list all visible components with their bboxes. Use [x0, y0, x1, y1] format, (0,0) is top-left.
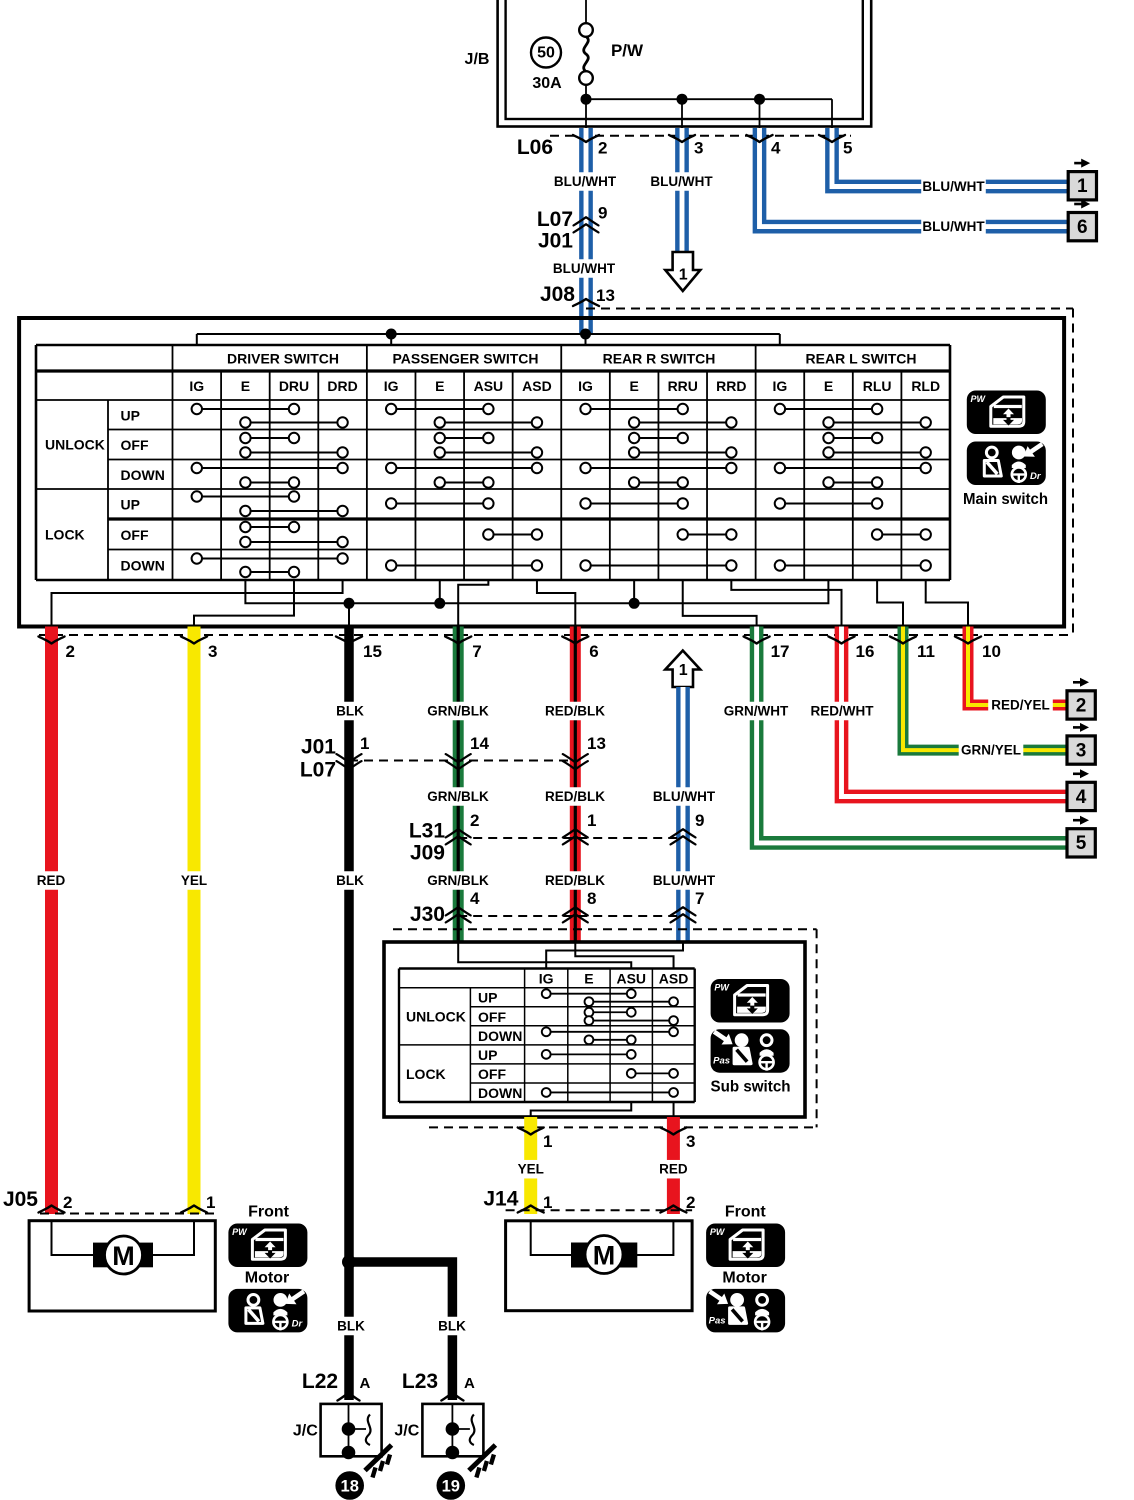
svg-text:1: 1: [543, 1132, 552, 1151]
in-line connector J01/L07 (pins 1 14 13): [300, 734, 606, 782]
svg-text:E: E: [629, 378, 638, 394]
sub switch connector (dashed outline): [393, 929, 817, 1127]
svg-text:6: 6: [589, 642, 598, 661]
svg-text:3: 3: [686, 1132, 695, 1151]
driver motor icon PW window: [228, 1224, 307, 1268]
svg-text:REAR R SWITCH: REAR R SWITCH: [603, 351, 716, 367]
svg-text:Dr: Dr: [1030, 471, 1042, 482]
svg-text:PW: PW: [232, 1227, 248, 1237]
label BLU/WHT: [652, 871, 717, 890]
svg-text:BLU/WHT: BLU/WHT: [653, 789, 716, 804]
label BLK: [334, 702, 365, 721]
terminal 2 (to page arrow): [1067, 678, 1095, 719]
label RED/WHT: [810, 702, 875, 721]
label BLU/WHT: [921, 217, 986, 236]
svg-text:J14: J14: [483, 1187, 518, 1210]
label BLU/WHT: [552, 259, 617, 278]
svg-text:ASD: ASD: [522, 378, 552, 394]
svg-text:DRU: DRU: [279, 378, 309, 394]
svg-text:BLU/WHT: BLU/WHT: [922, 219, 985, 234]
svg-text:YEL: YEL: [181, 873, 207, 888]
connector J08 pin 13: [540, 283, 615, 306]
label BLK: [335, 1317, 366, 1336]
svg-text:J/B: J/B: [465, 51, 490, 68]
label Sub switch: [711, 1079, 791, 1096]
driver motor icon driver seat: [228, 1289, 307, 1333]
fuse 50 30A P/W: [531, 0, 644, 92]
driver front motor: [29, 1221, 215, 1311]
label YEL: [178, 871, 209, 890]
svg-text:2: 2: [686, 1193, 695, 1212]
svg-text:4: 4: [470, 889, 480, 908]
svg-text:3: 3: [208, 642, 217, 661]
svg-text:J/C: J/C: [293, 1422, 318, 1439]
wire BLU/WHT L06-4 to terminal 6: [760, 128, 1069, 227]
wire BLU/WHT to sub switch: [676, 687, 690, 942]
J/B internal bus and pin stubs: [581, 85, 833, 128]
label Motor: [722, 1270, 766, 1287]
label GRN/BLK: [426, 871, 491, 890]
svg-text:Motor: Motor: [722, 1270, 766, 1287]
svg-text:1: 1: [679, 267, 688, 284]
svg-text:BLU/WHT: BLU/WHT: [653, 873, 716, 888]
main switch bottom pin numbers: [66, 642, 1001, 661]
svg-text:7: 7: [695, 889, 704, 908]
joint connector J/C (18): [293, 1404, 392, 1500]
svg-text:BLU/WHT: BLU/WHT: [554, 174, 617, 189]
svg-text:BLK: BLK: [336, 704, 364, 719]
svg-text:9: 9: [598, 204, 607, 223]
svg-text:RED: RED: [659, 1162, 688, 1177]
sub switch box: [384, 942, 805, 1117]
wire BLU/WHT L06-3: [675, 128, 689, 253]
svg-text:15: 15: [363, 642, 382, 661]
svg-text:DOWN: DOWN: [478, 1085, 522, 1101]
svg-text:2: 2: [66, 642, 75, 661]
label BLU/WHT: [553, 172, 618, 191]
svg-text:ASU: ASU: [616, 971, 646, 987]
svg-text:Motor: Motor: [245, 1270, 289, 1287]
label BLU/WHT: [921, 177, 986, 196]
svg-text:M: M: [112, 1241, 135, 1271]
svg-text:4: 4: [1076, 787, 1087, 808]
svg-text:L07: L07: [300, 759, 336, 782]
wire GRN/WHT to terminal 5: [757, 627, 1067, 843]
svg-text:Dr: Dr: [292, 1318, 304, 1329]
svg-text:DOWN: DOWN: [121, 557, 165, 573]
sub switch icon passenger seat: [711, 1029, 790, 1073]
svg-text:UP: UP: [121, 497, 140, 513]
label YEL: [515, 1160, 546, 1179]
svg-text:LOCK: LOCK: [45, 527, 85, 543]
label Main switch: [963, 491, 1048, 508]
svg-text:14: 14: [470, 734, 489, 753]
label RED/BLK: [543, 787, 608, 806]
svg-text:DOWN: DOWN: [121, 467, 165, 483]
wire BLK ground with branch: [342, 627, 452, 1401]
junction box J/B: [465, 0, 872, 127]
svg-text:OFF: OFF: [478, 1009, 506, 1025]
svg-text:RED/BLK: RED/BLK: [545, 704, 605, 719]
svg-text:PW: PW: [710, 1227, 726, 1237]
main switch table labels: [45, 351, 940, 574]
main switch icon driver seat: [967, 442, 1046, 486]
svg-text:1: 1: [679, 662, 688, 679]
svg-text:7: 7: [472, 642, 481, 661]
svg-text:RED/YEL: RED/YEL: [991, 698, 1050, 713]
svg-text:Front: Front: [248, 1204, 290, 1221]
svg-text:DRD: DRD: [327, 378, 357, 394]
svg-text:E: E: [584, 971, 593, 987]
svg-text:Pas: Pas: [713, 1056, 730, 1067]
svg-text:Sub switch: Sub switch: [711, 1079, 791, 1096]
svg-text:L07: L07: [537, 208, 573, 231]
svg-text:IG: IG: [773, 378, 788, 394]
svg-text:16: 16: [856, 642, 875, 661]
svg-text:RED/BLK: RED/BLK: [545, 873, 605, 888]
svg-text:RRD: RRD: [716, 378, 746, 394]
svg-text:BLU/WHT: BLU/WHT: [922, 179, 985, 194]
joint connector J/C (19): [394, 1404, 495, 1500]
sub switch bottom pins: [518, 1128, 696, 1152]
svg-text:L22: L22: [302, 1370, 338, 1393]
passenger front motor: [506, 1221, 692, 1311]
label BLU/WHT: [649, 172, 714, 191]
passenger motor icon seat: [706, 1289, 785, 1333]
svg-text:IG: IG: [578, 378, 593, 394]
svg-text:RED/WHT: RED/WHT: [811, 704, 875, 719]
svg-text:9: 9: [695, 811, 704, 830]
svg-text:Front: Front: [725, 1204, 767, 1221]
passenger motor icon PW window: [706, 1224, 785, 1268]
svg-text:A: A: [360, 1375, 371, 1392]
connector L22 pin A: [302, 1370, 371, 1400]
svg-text:OFF: OFF: [478, 1066, 506, 1082]
main switch icon PW window: [967, 391, 1046, 435]
in-line connector L31/J09 (pins 2 1 9): [409, 811, 705, 865]
rear R switch contacts: [580, 404, 736, 571]
svg-text:LOCK: LOCK: [406, 1066, 446, 1082]
svg-text:BLK: BLK: [438, 1319, 466, 1334]
svg-text:E: E: [824, 378, 833, 394]
svg-text:UNLOCK: UNLOCK: [406, 1009, 466, 1025]
connector J30 (pins 4 8 7): [410, 889, 705, 926]
passenger switch contacts: [386, 404, 542, 571]
svg-text:J/C: J/C: [394, 1422, 419, 1439]
svg-text:REAR L SWITCH: REAR L SWITCH: [806, 351, 917, 367]
wire RED/BLK to sub switch: [570, 627, 581, 943]
svg-text:RRU: RRU: [668, 378, 698, 394]
svg-text:17: 17: [771, 642, 790, 661]
svg-text:ASU: ASU: [474, 378, 504, 394]
svg-text:8: 8: [587, 889, 596, 908]
svg-text:Main switch: Main switch: [963, 491, 1048, 508]
connector J14 (pins 1 2): [483, 1187, 695, 1212]
label BLK: [334, 871, 365, 890]
svg-text:1: 1: [206, 1193, 215, 1212]
sub switch input wiring: [458, 942, 683, 969]
svg-text:PW: PW: [714, 983, 730, 993]
svg-text:2: 2: [63, 1193, 72, 1212]
svg-text:GRN/BLK: GRN/BLK: [427, 873, 489, 888]
svg-text:J01: J01: [301, 736, 336, 759]
svg-text:UP: UP: [478, 990, 497, 1006]
svg-text:GRN/BLK: GRN/BLK: [427, 704, 489, 719]
rear L switch contacts: [775, 404, 931, 571]
wire RED sub to J14-2: [667, 1117, 680, 1214]
svg-text:UP: UP: [121, 407, 140, 423]
wire RED/WHT to terminal 4: [842, 627, 1068, 797]
wire BLU/WHT L06-2 to J08-13: [579, 128, 593, 335]
svg-text:10: 10: [982, 642, 1001, 661]
main switch table grid: [36, 345, 950, 580]
label RED: [658, 1160, 689, 1179]
svg-text:RED: RED: [37, 873, 66, 888]
svg-text:2: 2: [470, 811, 479, 830]
in-line connector L07/J01 pin 9: [537, 204, 608, 253]
terminal 5 (to page arrow): [1067, 816, 1095, 857]
svg-text:GRN/WHT: GRN/WHT: [724, 704, 789, 719]
sub switch table grid: [399, 969, 695, 1103]
terminal 3 (to page arrow): [1067, 723, 1095, 764]
svg-text:PW: PW: [971, 394, 987, 404]
svg-text:BLK: BLK: [336, 873, 364, 888]
svg-text:Pas: Pas: [709, 1315, 726, 1326]
svg-text:A: A: [464, 1375, 475, 1392]
svg-text:IG: IG: [384, 378, 399, 394]
label GRN/YEL: [959, 741, 1024, 760]
svg-text:RLD: RLD: [911, 378, 940, 394]
svg-text:IG: IG: [539, 971, 554, 987]
wire GRN/YEL to terminal 3: [903, 627, 1067, 751]
sub switch contacts: [542, 989, 678, 1097]
label RED: [35, 871, 66, 890]
svg-text:L06: L06: [517, 136, 553, 159]
svg-text:UNLOCK: UNLOCK: [45, 437, 105, 453]
driver switch contacts: [192, 404, 348, 577]
label GRN/WHT: [724, 702, 789, 721]
wire GRN/BLK to sub switch: [453, 627, 464, 943]
wire YEL to J05-1: [188, 627, 201, 1215]
off-page connector arrow 1 (down): [665, 252, 700, 291]
svg-text:M: M: [593, 1241, 616, 1271]
svg-text:30A: 30A: [532, 75, 562, 92]
sub switch icon PW window: [711, 979, 790, 1023]
svg-text:PASSENGER SWITCH: PASSENGER SWITCH: [393, 351, 539, 367]
svg-text:ASD: ASD: [659, 971, 689, 987]
terminal 1 (to page arrow): [1068, 159, 1096, 200]
svg-text:13: 13: [587, 734, 606, 753]
label GRN/BLK: [426, 787, 491, 806]
svg-text:1: 1: [360, 734, 369, 753]
svg-text:2: 2: [1076, 695, 1087, 716]
sub switch table labels: [406, 971, 688, 1101]
svg-text:UP: UP: [478, 1047, 497, 1063]
svg-text:DOWN: DOWN: [478, 1028, 522, 1044]
svg-text:IG: IG: [189, 378, 204, 394]
main switch internal wiring to pins: [52, 580, 969, 627]
svg-text:YEL: YEL: [518, 1162, 544, 1177]
svg-text:5: 5: [1076, 833, 1087, 854]
connector L06 pin chevrons: [573, 135, 845, 142]
svg-text:J05: J05: [3, 1188, 38, 1211]
svg-text:DRIVER SWITCH: DRIVER SWITCH: [227, 351, 339, 367]
label BLU/WHT: [652, 787, 717, 806]
svg-text:11: 11: [917, 642, 935, 661]
svg-text:J01: J01: [538, 230, 573, 253]
wire RED/YEL to terminal 2: [968, 627, 1067, 706]
label Front: [725, 1204, 767, 1221]
svg-text:BLU/WHT: BLU/WHT: [553, 261, 616, 276]
terminal 6 (to page arrow): [1068, 200, 1096, 241]
svg-text:J08: J08: [540, 283, 575, 306]
svg-text:P/W: P/W: [611, 41, 644, 60]
svg-text:RED/BLK: RED/BLK: [545, 789, 605, 804]
wire YEL sub to J14-1: [524, 1117, 537, 1214]
label BLK: [436, 1317, 467, 1336]
connector L06 (pins 2 3 4 5): [517, 136, 853, 159]
connector L23 pin A: [402, 1370, 475, 1400]
label Motor: [245, 1270, 289, 1287]
sub switch output wiring: [531, 1102, 674, 1117]
wire BLU/WHT L06-5 to terminal 1: [832, 128, 1068, 187]
label GRN/BLK: [426, 702, 491, 721]
svg-text:RLU: RLU: [863, 378, 892, 394]
svg-text:BLK: BLK: [337, 1319, 365, 1334]
svg-text:6: 6: [1077, 217, 1088, 238]
svg-text:BLU/WHT: BLU/WHT: [650, 174, 713, 189]
svg-text:E: E: [241, 378, 250, 394]
svg-text:L23: L23: [402, 1370, 438, 1393]
svg-text:L31: L31: [409, 820, 446, 843]
label RED/YEL: [988, 696, 1053, 715]
svg-text:3: 3: [694, 139, 703, 158]
svg-text:GRN/YEL: GRN/YEL: [961, 743, 1021, 758]
svg-text:1: 1: [543, 1193, 552, 1212]
svg-text:50: 50: [537, 45, 555, 62]
terminal 4 (to page arrow): [1067, 769, 1095, 810]
main switch bottom pin chevrons: [39, 637, 982, 644]
main switch box: [19, 318, 1064, 627]
label RED/BLK: [543, 871, 608, 890]
svg-text:13: 13: [596, 286, 615, 305]
svg-text:GRN/BLK: GRN/BLK: [427, 789, 489, 804]
svg-text:OFF: OFF: [121, 437, 149, 453]
svg-text:1: 1: [1077, 176, 1088, 197]
label Front: [248, 1204, 290, 1221]
svg-text:3: 3: [1076, 740, 1087, 761]
svg-text:1: 1: [587, 811, 596, 830]
svg-text:5: 5: [843, 139, 852, 158]
svg-text:J30: J30: [410, 903, 445, 926]
svg-text:E: E: [435, 378, 444, 394]
connector J05 (pins 2 1): [3, 1188, 216, 1213]
svg-text:18: 18: [341, 1478, 359, 1496]
main switch connector (dashed outline): [39, 309, 1073, 636]
off-page connector arrow 1 (up): [665, 651, 700, 688]
svg-text:4: 4: [771, 139, 781, 158]
label RED/BLK: [543, 702, 608, 721]
svg-text:OFF: OFF: [121, 527, 149, 543]
svg-text:J09: J09: [410, 842, 445, 865]
svg-text:2: 2: [598, 139, 607, 158]
main switch IG feed bus: [197, 329, 780, 347]
wire RED to J05-2: [45, 627, 58, 1215]
svg-text:19: 19: [442, 1478, 460, 1496]
